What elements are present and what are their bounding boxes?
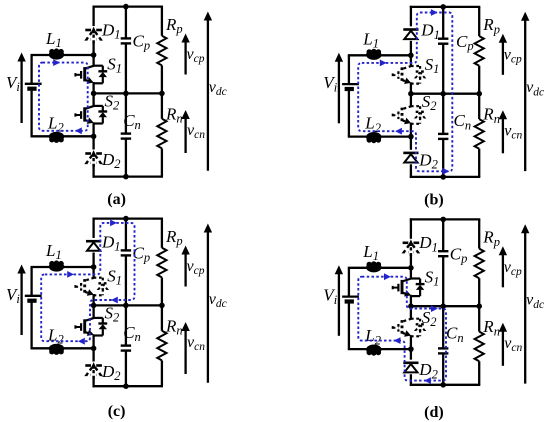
resistor Rn (c) bbox=[157, 331, 166, 361]
wire: d top rail bbox=[410, 218, 481, 220]
arrow: Vi polarity arrow (b) bbox=[338, 60, 340, 123]
wire: c left rail bottom segment bbox=[30, 302, 32, 349]
wire: d bottom wire from Vi to rail bbox=[348, 348, 411, 350]
capacitor Cp (c) bbox=[121, 249, 131, 251]
battery source Vi (a) bbox=[25, 83, 42, 85]
wire: a Cn column lower bbox=[125, 139, 127, 177]
switch S1 IGBT (c) bbox=[94, 277, 103, 279]
wire: c middle rail D1 to S1 bbox=[92, 253, 94, 278]
wire: b Cn column upper bbox=[442, 94, 444, 134]
node: a junction mid wire / Rp-Rn bbox=[159, 91, 165, 97]
wire: c mid wire midpoint to Rn column bbox=[94, 304, 163, 306]
wire: d middle rail S1 emitter to midpoint bbox=[410, 295, 412, 319]
wire: d Cp column lower bbox=[442, 256, 444, 306]
switch S1 IGBT (d) bbox=[411, 277, 420, 279]
node: b junction L1/rail bbox=[408, 53, 414, 59]
wire: c Rp column lower bbox=[161, 277, 163, 305]
battery source Vi (b) bbox=[342, 83, 359, 85]
wire: c middle rail S1 emitter to midpoint bbox=[92, 294, 94, 318]
arrow: Vi polarity arrow (d) bbox=[338, 273, 340, 336]
wire: a Cp column upper bbox=[125, 7, 127, 39]
capacitor Cn (a) bbox=[121, 132, 131, 134]
switch S2 IGBT (d) bbox=[411, 318, 420, 320]
node: b junction mid wire / Rp-Rn bbox=[476, 91, 482, 97]
node: a midpoint junction bbox=[91, 91, 97, 97]
wire: d middle rail D1 to S1 bbox=[410, 253, 412, 278]
wire: c bottom wire from Vi to rail bbox=[31, 347, 94, 349]
node: d junction top rail / Cp bbox=[440, 217, 446, 223]
arrow: vcp voltage arrow (c) bbox=[184, 253, 186, 287]
wire: d Cn column lower bbox=[442, 353, 444, 384]
node: c junction top rail / Cp bbox=[123, 216, 129, 222]
wire: a Rn column upper bbox=[161, 93, 163, 118]
wire: a mid wire midpoint to Rn column bbox=[94, 92, 163, 94]
wire: c top rail bbox=[93, 217, 164, 219]
node: b junction top rail / Cp bbox=[440, 4, 446, 10]
wire: d bottom rail bbox=[410, 384, 481, 386]
diode D2 (a) bbox=[85, 152, 91, 155]
resistor Rn (d) bbox=[475, 332, 484, 362]
wire: a middle rail above D1 bbox=[92, 6, 94, 27]
wire: c left rail top segment bbox=[30, 267, 32, 295]
wire: b Rp column lower bbox=[478, 66, 480, 94]
inductor L1 (c) bbox=[49, 262, 64, 272]
svg-text:(a): (a) bbox=[107, 191, 126, 208]
wire: d left rail top segment bbox=[348, 268, 350, 296]
node: c junction L1/rail bbox=[91, 264, 97, 270]
node: b junction mid wire / Cp-Cn bbox=[440, 91, 446, 97]
wire: a bottom wire from Vi to rail bbox=[31, 135, 94, 137]
arrow: vcn voltage arrow (a) bbox=[184, 118, 186, 154]
svg-text:(d): (d) bbox=[424, 404, 444, 421]
wire: d Rn column lower bbox=[478, 361, 480, 385]
resistor Rp (c) bbox=[157, 248, 166, 278]
resistor Rp (b) bbox=[475, 36, 484, 66]
wire: a middle rail S1 emitter to midpoint bbox=[92, 82, 94, 106]
node: c junction mid wire / Rp-Rn bbox=[159, 303, 165, 309]
capacitor Cp (b) bbox=[438, 38, 448, 40]
node: d junction L2/rail bbox=[408, 346, 414, 352]
wire: a top rail bbox=[93, 5, 164, 7]
switch S1 IGBT (b) bbox=[411, 65, 420, 67]
wire: a Rn column lower bbox=[161, 148, 163, 176]
wire: b top rail bbox=[410, 6, 481, 8]
wire: a bottom rail bbox=[93, 175, 164, 177]
node: c junction mid wire / Cp-Cn bbox=[123, 303, 129, 309]
wire: b Rn column upper bbox=[478, 94, 480, 119]
arrow: Vi polarity arrow (c) bbox=[20, 272, 22, 335]
node: b junction L2/rail bbox=[408, 134, 414, 140]
wire: a Cn column upper bbox=[125, 93, 127, 133]
wire: b Cp column upper bbox=[442, 7, 444, 39]
wire: b Cp column lower bbox=[442, 44, 444, 94]
wire: b bottom wire from Vi to rail bbox=[348, 135, 411, 137]
node: a junction L2/rail bbox=[91, 134, 97, 140]
wire: a middle rail S2 emitter through L2 junction to D2 bbox=[92, 122, 94, 149]
wire: b middle rail D1 to S1 bbox=[410, 41, 412, 66]
node: c junction L2/rail bbox=[91, 346, 97, 352]
diode D1 (c) bbox=[86, 240, 101, 243]
wire: c Cn column lower bbox=[125, 351, 127, 387]
wire: c middle rail above D1 bbox=[92, 218, 94, 239]
svg-text:(c): (c) bbox=[108, 403, 126, 420]
node: d junction mid wire / Rp-Rn bbox=[476, 303, 482, 309]
node: c midpoint junction bbox=[91, 303, 97, 309]
node: a junction bottom rail / Cn bbox=[123, 174, 129, 180]
diode D1 (d) bbox=[403, 242, 409, 245]
wire: a middle rail D2 to bottom rail bbox=[92, 164, 94, 178]
wire: b middle rail above D1 bbox=[410, 6, 412, 27]
wire: blue dashed current path loop (a) bbox=[39, 63, 88, 131]
wire: d mid wire midpoint to Rn column bbox=[411, 305, 480, 307]
wire: b Cn column lower bbox=[442, 139, 444, 177]
diode D2 (c) bbox=[85, 364, 91, 367]
wire: c bottom rail bbox=[93, 385, 164, 387]
wire: c Cp column lower bbox=[125, 255, 127, 305]
wire: a left rail top segment bbox=[30, 55, 32, 83]
node: d junction bottom rail / Cn bbox=[440, 382, 446, 388]
wire: a Rp column lower bbox=[161, 65, 163, 93]
arrow: Vi polarity arrow (a) bbox=[20, 60, 22, 123]
arrow: vdc voltage arrow (c) bbox=[207, 231, 209, 383]
inductor L2 (a) bbox=[49, 132, 64, 142]
arrow: vcn voltage arrow (c) bbox=[184, 330, 186, 375]
wire: d Cn column upper bbox=[442, 306, 444, 348]
wire: b middle rail S2 emitter through L2 junction to D2 bbox=[410, 123, 412, 150]
wire: b middle rail D2 to bottom rail bbox=[410, 164, 412, 178]
node: d midpoint junction bbox=[408, 303, 414, 309]
wire: d middle rail D2 to bottom rail bbox=[410, 374, 412, 386]
node: a junction L1/rail bbox=[91, 52, 97, 58]
battery source Vi (d) bbox=[342, 295, 359, 297]
wire: b top wire from Vi to rail bbox=[348, 54, 411, 56]
wire: d middle rail S2 emitter through L2 junction to D2 bbox=[410, 335, 412, 360]
inductor L2 (b) bbox=[366, 132, 381, 142]
inductor L1 (d) bbox=[366, 262, 381, 272]
inductor L2 (c) bbox=[49, 344, 64, 354]
diode D1 (b) bbox=[403, 28, 418, 31]
wire: d top wire from Vi to rail bbox=[348, 267, 411, 269]
arrow: vdc voltage arrow (b) bbox=[524, 19, 526, 171]
wire: c Rn column lower bbox=[161, 360, 163, 386]
wire: a left rail bottom segment bbox=[30, 90, 32, 137]
wire: b Rn column lower bbox=[478, 149, 480, 177]
wire: a middle rail D1 to S1 bbox=[92, 41, 94, 66]
wire: d Cp column upper bbox=[442, 219, 444, 251]
wire: b left rail top segment bbox=[348, 55, 350, 83]
switch S2 IGBT (b) bbox=[411, 105, 420, 107]
resistor Rp (a) bbox=[157, 36, 166, 66]
arrow: vcn voltage arrow (d) bbox=[502, 330, 504, 366]
wire: blue dashed current path loop (d) bbox=[358, 277, 446, 381]
wire: c Cp column upper bbox=[125, 219, 127, 251]
switch S2 IGBT (c) bbox=[94, 317, 103, 319]
wire: b middle rail S1 emitter to midpoint bbox=[410, 82, 412, 106]
wire: c Rn column upper bbox=[161, 305, 163, 330]
arrow: vdc voltage arrow (d) bbox=[524, 232, 526, 384]
capacitor Cn (d) bbox=[438, 347, 448, 349]
capacitor Cp (d) bbox=[438, 250, 448, 252]
wire: c middle rail S2 emitter through L2 junction to D2 bbox=[92, 334, 94, 361]
inductor L2 (d) bbox=[366, 345, 381, 355]
wire: a Rp column upper bbox=[161, 7, 163, 36]
wire: a top wire from Vi to rail bbox=[31, 54, 94, 56]
wire: d Rp column upper bbox=[478, 219, 480, 248]
wire: d Rp column lower bbox=[478, 278, 480, 306]
wire: c top wire from Vi to rail bbox=[31, 266, 94, 268]
node: b midpoint junction bbox=[408, 91, 414, 97]
wire: b mid wire midpoint to Rn column bbox=[411, 93, 480, 95]
wire: blue dashed current path loop (c) bbox=[41, 223, 134, 341]
node: b junction bottom rail / Cn bbox=[440, 174, 446, 180]
wire: b Rp column upper bbox=[478, 7, 480, 36]
arrow: vdc voltage arrow (a) bbox=[207, 19, 209, 171]
wire: c Cn column upper bbox=[125, 305, 127, 345]
wire: d Rn column upper bbox=[478, 306, 480, 331]
diode D1 (a) bbox=[85, 29, 91, 32]
capacitor Cn (c) bbox=[121, 344, 131, 346]
node: d junction mid wire / Cp-Cn bbox=[440, 303, 446, 309]
arrow: vcp voltage arrow (b) bbox=[502, 41, 504, 75]
wire: blue dashed current path loop (b) bbox=[358, 13, 452, 172]
diode D2 (b) bbox=[403, 152, 418, 155]
wire: b left rail bottom segment bbox=[348, 90, 350, 137]
svg-text:(b): (b) bbox=[424, 191, 444, 208]
wire: b bottom rail bbox=[410, 176, 481, 178]
resistor Rn (a) bbox=[157, 119, 166, 149]
capacitor Cp (a) bbox=[121, 37, 131, 39]
battery source Vi (c) bbox=[25, 295, 42, 297]
node: d junction L1/rail bbox=[408, 265, 414, 271]
diode D2 (d) bbox=[403, 361, 418, 364]
resistor Rn (b) bbox=[475, 119, 484, 149]
wire: c Rp column upper bbox=[161, 219, 163, 248]
arrow: vcp voltage arrow (a) bbox=[184, 41, 186, 75]
node: a junction top rail / Cp bbox=[123, 4, 129, 10]
inductor L1 (b) bbox=[366, 50, 381, 60]
resistor Rp (d) bbox=[475, 249, 484, 279]
arrow: vcn voltage arrow (b) bbox=[502, 118, 504, 154]
node: c junction bottom rail / Cn bbox=[123, 383, 129, 389]
inductor L1 (a) bbox=[49, 50, 64, 60]
wire: a Cp column lower bbox=[125, 43, 127, 93]
wire: d left rail bottom segment bbox=[348, 302, 350, 349]
node: a junction mid wire / Cp-Cn bbox=[123, 91, 129, 97]
wire: d middle rail above D1 bbox=[410, 218, 412, 239]
arrow: vcp voltage arrow (d) bbox=[502, 254, 504, 287]
capacitor Cn (b) bbox=[438, 133, 448, 135]
switch S1 IGBT (a) bbox=[94, 65, 103, 67]
switch S2 IGBT (a) bbox=[94, 105, 103, 107]
wire: c middle rail D2 to bottom rail bbox=[92, 376, 94, 387]
